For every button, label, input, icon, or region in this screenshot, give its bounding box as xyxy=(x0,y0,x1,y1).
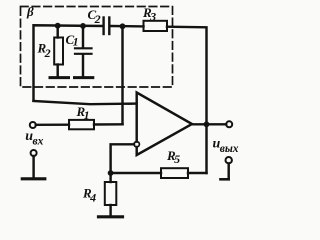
input terminal u_vx xyxy=(30,122,36,128)
op-amp U1 xyxy=(134,93,192,156)
capacitor C2 xyxy=(104,18,110,35)
wire R4/R5 junction to R5 xyxy=(111,172,161,174)
junction node B (C2/R3) xyxy=(120,23,126,29)
junction node C1 top xyxy=(80,23,86,29)
wire node B vertical (C2/R3 junction down to R1) xyxy=(121,26,123,124)
resistor R2 xyxy=(54,26,63,77)
svg-text:C1: C1 xyxy=(66,32,79,49)
junction node R4/R5 xyxy=(108,170,114,176)
output ground terminal xyxy=(221,157,232,179)
wire top rail left segment (node A to C2 left plate) xyxy=(34,25,103,100)
output terminal u_vyx xyxy=(226,121,232,127)
resistor R5 xyxy=(161,168,188,178)
wire output node to output terminal xyxy=(207,123,227,125)
capacitor C1 xyxy=(75,26,92,77)
wire R5 to output vertical xyxy=(188,172,207,174)
resistor R4 xyxy=(105,173,117,216)
feedback network dashed box (beta network) xyxy=(21,7,173,88)
resistor R3 xyxy=(144,21,168,31)
ground bar under R2 xyxy=(50,76,69,79)
resistor R1 xyxy=(69,120,94,129)
ground bar under C1 xyxy=(75,76,93,79)
wire input terminal to R1 xyxy=(36,123,69,126)
wire top rail middle segment (C2 right plate to R3 left) xyxy=(111,25,144,28)
junction node R2 top xyxy=(55,23,61,29)
ground bar under input terminal xyxy=(22,177,45,180)
wire inverting input (bubble to R4/R5 junction) xyxy=(111,144,134,173)
wire non-inverting input (box bottom to op-amp + input) xyxy=(34,101,137,104)
ground bar under R4 xyxy=(99,215,123,218)
wire top rail right segment (R3 right to output corner) xyxy=(167,27,207,173)
junction node output xyxy=(204,121,210,127)
input ground terminal xyxy=(31,150,37,177)
svg-text:β: β xyxy=(26,4,34,19)
wire op-amp output to node xyxy=(192,123,207,125)
wire R1 to node B xyxy=(94,123,123,126)
